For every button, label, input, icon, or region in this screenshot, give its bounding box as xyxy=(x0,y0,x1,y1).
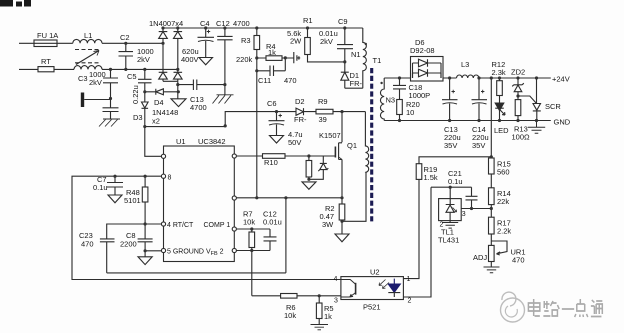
svg-text:10k: 10k xyxy=(243,218,255,227)
winding N2 xyxy=(365,112,368,173)
svg-text:1000P: 1000P xyxy=(409,91,431,100)
svg-text:GND: GND xyxy=(554,118,571,127)
wire AC line top xyxy=(19,42,163,44)
capacitor C7 0.1u xyxy=(107,176,123,195)
svg-text:LED: LED xyxy=(494,126,509,135)
SECTION: feedback xyxy=(341,78,507,300)
svg-text:220k: 220k xyxy=(236,55,253,64)
svg-text:4700: 4700 xyxy=(190,103,207,112)
watermark text dian4 xyxy=(575,299,588,317)
node N3 dot xyxy=(380,82,382,84)
SECTION: mosfet xyxy=(263,108,367,242)
resistor R48 5101 xyxy=(142,187,148,202)
wire gate line xyxy=(285,155,335,157)
wire N2 bottom return xyxy=(342,173,366,222)
pin 2 vfb circle xyxy=(232,248,236,252)
watermark text yi xyxy=(562,308,574,310)
capacitor C21 0.1u xyxy=(466,187,478,208)
svg-text:R10: R10 xyxy=(264,158,278,167)
resistor R11 gate pulldown xyxy=(306,161,312,178)
resistor R5 1k xyxy=(316,303,322,319)
fuse FU 1A xyxy=(34,40,57,47)
wire opto pin2 riser xyxy=(403,187,431,297)
svg-text:560: 560 xyxy=(497,168,510,177)
svg-text:35V: 35V xyxy=(472,141,485,150)
wire D1 to N1 bottom xyxy=(345,87,363,89)
svg-text:D92-08: D92-08 xyxy=(410,46,435,55)
resistor R6 10k xyxy=(281,294,297,299)
svg-text:SCR: SCR xyxy=(545,102,561,111)
resistor R10 xyxy=(263,154,286,159)
svg-text:ADJ: ADJ xyxy=(473,253,487,262)
svg-text:50V: 50V xyxy=(288,138,301,147)
svg-text:L3: L3 xyxy=(461,60,469,69)
node dots primary xyxy=(124,42,127,45)
node dots snubber xyxy=(176,83,179,86)
svg-text:2: 2 xyxy=(440,222,444,229)
node dots ic left xyxy=(113,175,116,178)
SECTION: watermark xyxy=(501,292,603,322)
SECTION: junction dots xyxy=(109,26,538,297)
resistor R3 220k xyxy=(254,36,260,50)
SECTION: secondary xyxy=(384,57,551,134)
svg-text:D2: D2 xyxy=(295,97,305,106)
capacitor C12b 0.01u xyxy=(264,229,277,251)
SECTION: bridge and bulk xyxy=(159,28,366,127)
node N1 dot xyxy=(365,43,367,45)
wire D3 node down to IC pin xyxy=(145,127,162,157)
resistor R2 0.47 3W xyxy=(339,204,345,220)
capacitor C18 1000P xyxy=(393,78,406,100)
node dots gate and sense xyxy=(307,154,310,157)
wire pin3 sense line xyxy=(236,197,342,199)
LED indicator xyxy=(495,103,504,111)
pin 5 circle xyxy=(161,248,165,252)
ground triangle R11 xyxy=(302,182,316,189)
svg-text:UC3842: UC3842 xyxy=(198,137,226,146)
svg-text:1k: 1k xyxy=(268,48,276,57)
capacitor C0 lower xyxy=(103,99,119,119)
svg-text:RT: RT xyxy=(41,57,51,66)
svg-text:100Ω: 100Ω xyxy=(512,133,531,142)
transistor opto phototransistor xyxy=(341,280,356,285)
wire L1 arrow xyxy=(76,51,99,65)
svg-text:C12: C12 xyxy=(216,19,230,28)
potentiometer UR1 470 xyxy=(489,245,495,261)
ground 777 under C12 riser xyxy=(213,95,234,104)
svg-text:2.3k: 2.3k xyxy=(492,68,506,77)
thyristor SCR xyxy=(533,78,541,121)
svg-text:C4: C4 xyxy=(200,19,210,28)
op-amp U1 UC3842 box xyxy=(164,146,235,262)
capacitor C3 xyxy=(103,69,118,98)
capacitor C13 220u xyxy=(442,78,458,121)
svg-text:10: 10 xyxy=(406,108,414,117)
diode D2 FR- xyxy=(296,108,304,115)
capacitor C13 4700 horizontal xyxy=(178,80,225,91)
wire R19 top jog xyxy=(419,157,491,164)
diode D4 xyxy=(145,91,179,93)
op-amp TL1 TL431 box xyxy=(439,199,462,221)
wire AC line bottom xyxy=(19,68,178,70)
zener ZD1 gate xyxy=(309,156,328,179)
svg-text:470: 470 xyxy=(284,76,297,85)
svg-text:4700: 4700 xyxy=(233,19,250,28)
wire secondary gnd rail xyxy=(384,120,551,122)
svg-text:5 GROUND: 5 GROUND xyxy=(167,249,204,256)
logo circle xyxy=(501,298,525,322)
svg-text:C9: C9 xyxy=(338,17,348,26)
diode opto LED xyxy=(388,279,400,293)
svg-text:2200: 2200 xyxy=(120,240,137,249)
ground triangle R2 xyxy=(335,234,349,242)
wire vfb to R6 xyxy=(252,295,281,297)
wire pin2 vfb net xyxy=(236,251,270,296)
resistor R12 2.3k xyxy=(497,81,503,96)
capacitor C11 470 xyxy=(257,58,286,76)
capacitor C12 4700 xyxy=(217,28,232,95)
capacitor C-R4 series xyxy=(294,52,300,63)
svg-text:C11: C11 xyxy=(258,76,271,85)
svg-text:K1507: K1507 xyxy=(319,131,341,140)
svg-text:35V: 35V xyxy=(444,141,457,150)
svg-text:R1: R1 xyxy=(303,16,313,25)
SECTION: transformer xyxy=(363,28,384,222)
wire VREF pin8 net xyxy=(72,176,341,279)
ground earth SCR xyxy=(528,121,545,134)
svg-text:U1: U1 xyxy=(176,137,186,146)
svg-text:U2: U2 xyxy=(370,268,380,277)
svg-text:3W: 3W xyxy=(322,220,334,229)
svg-text:2kV: 2kV xyxy=(89,78,102,87)
svg-text:P521: P521 xyxy=(363,303,381,312)
wire opto pin1 riser xyxy=(403,179,419,278)
title fragment top-left xyxy=(0,0,13,7)
svg-text:4 RT/CT: 4 RT/CT xyxy=(167,222,194,229)
svg-text:1k: 1k xyxy=(324,312,332,321)
svg-text:N3: N3 xyxy=(386,96,396,105)
node dots top rail xyxy=(161,26,164,29)
resistor R1 5.6k 2W xyxy=(305,38,311,55)
capacitor C4 620u xyxy=(198,28,215,58)
diode D1 FR- xyxy=(341,72,349,88)
diode bridge D-topleft xyxy=(159,28,168,72)
svg-text:L1: L1 xyxy=(84,31,92,40)
wire SCR gate xyxy=(518,96,536,103)
resistor R15 560 xyxy=(489,158,495,174)
svg-text:T1: T1 xyxy=(373,56,382,65)
wire TL431 ref xyxy=(461,208,491,210)
svg-text:N1: N1 xyxy=(351,50,361,59)
ground earth UR1 xyxy=(484,267,500,273)
resistor RT xyxy=(38,67,54,72)
svg-text:2: 2 xyxy=(408,298,412,305)
node dots secondary xyxy=(398,76,401,79)
ground triangle bridge xyxy=(171,99,186,107)
ground earth TL431 xyxy=(442,223,458,229)
SECTION: uc3842 xyxy=(72,146,342,330)
watermark text dian xyxy=(528,299,602,317)
pin 4 circle xyxy=(161,222,165,226)
inductor L1 common-mode choke xyxy=(73,39,102,43)
pin 3 sense circle xyxy=(232,196,236,200)
resistor R9 39 xyxy=(316,109,333,114)
svg-text:0.1u: 0.1u xyxy=(448,177,463,186)
capacitor C23 470 xyxy=(100,239,115,273)
winding N1 xyxy=(363,28,367,88)
capacitor C9 0.01u 2kV xyxy=(337,28,353,72)
wire L1 core dashes xyxy=(75,49,100,51)
svg-text:FR-: FR- xyxy=(294,115,307,124)
wire pin1 comp net xyxy=(236,228,270,230)
wire opto light arrows xyxy=(379,280,389,289)
zener ZD2 xyxy=(512,78,524,100)
svg-text:0.01u: 0.01u xyxy=(263,218,282,227)
capacitor C6 4.7u 50V xyxy=(269,112,285,136)
svg-text:C5: C5 xyxy=(127,72,137,81)
ground 777 under C0 xyxy=(99,119,120,127)
svg-text:Q1: Q1 xyxy=(347,141,357,150)
svg-text:0.1u: 0.1u xyxy=(93,183,108,192)
node dots vcc line xyxy=(275,110,278,113)
wire TL431 cathode line xyxy=(431,186,472,188)
SECTION: snubber top xyxy=(254,28,363,198)
svg-text:x2: x2 xyxy=(152,117,160,126)
resistor R14 22k xyxy=(489,188,495,205)
svg-text:3: 3 xyxy=(334,298,338,305)
wire C23 bottom to sense riser xyxy=(107,198,286,273)
diode D6 dual box xyxy=(411,57,444,82)
svg-text:2kV: 2kV xyxy=(137,55,150,64)
svg-text:1.5k: 1.5k xyxy=(424,173,438,182)
wire pin4 net xyxy=(107,224,162,239)
watermark text tong xyxy=(591,300,602,317)
svg-text:39: 39 xyxy=(319,115,327,124)
svg-text:FU 1A: FU 1A xyxy=(37,31,58,40)
svg-text:5101: 5101 xyxy=(124,196,141,205)
diode D3 xyxy=(142,92,149,127)
wire R6 to opto xyxy=(297,295,341,297)
ground triangle C4 xyxy=(199,58,213,65)
resistor R19 1.5k xyxy=(416,164,422,180)
resistor R4 1k xyxy=(257,57,294,59)
diode bridge D-botright xyxy=(174,72,183,81)
wire pin6 to R10 xyxy=(236,155,262,157)
wire C8 to pin5 xyxy=(145,250,161,252)
ground triangle C6 xyxy=(270,136,284,144)
pin 1 comp circle xyxy=(232,227,236,231)
ground triangle C7 xyxy=(108,195,122,203)
capacitor C14 220u xyxy=(472,78,488,121)
svg-text:R9: R9 xyxy=(318,97,328,106)
svg-text:C2: C2 xyxy=(120,33,130,42)
svg-text:470: 470 xyxy=(81,240,94,249)
svg-text:TL431: TL431 xyxy=(438,236,459,245)
inductor L3 xyxy=(457,75,479,78)
watermark text lu xyxy=(543,301,559,316)
ground triangle C8 xyxy=(138,257,152,265)
svg-text:D3: D3 xyxy=(133,113,143,122)
svg-text:10k: 10k xyxy=(284,311,296,320)
svg-text:R3: R3 xyxy=(241,36,251,45)
winding N3 xyxy=(380,78,384,121)
chassis ground bar xyxy=(81,93,84,108)
svg-text:D4: D4 xyxy=(154,98,164,107)
svg-text:2.2k: 2.2k xyxy=(497,227,511,236)
svg-text:400V: 400V xyxy=(181,55,199,64)
svg-text:C3: C3 xyxy=(78,74,88,83)
diode bridge D-botleft xyxy=(159,72,168,81)
svg-text:1: 1 xyxy=(407,276,411,283)
svg-text:COMP 1: COMP 1 xyxy=(204,222,231,229)
transformer T1 core xyxy=(370,68,373,222)
resistor R13 100 xyxy=(515,100,521,116)
svg-text:C6: C6 xyxy=(267,99,277,108)
wire VCC riser and line xyxy=(225,112,365,127)
resistor R7 10k xyxy=(249,232,255,248)
svg-text:8: 8 xyxy=(168,175,172,182)
resistor R20 10 xyxy=(397,100,403,115)
svg-text:3: 3 xyxy=(462,211,466,218)
svg-text:470: 470 xyxy=(512,256,525,265)
svg-text:+24V: +24V xyxy=(552,75,570,84)
capacitor C8 2200 xyxy=(138,224,153,257)
svg-text:4: 4 xyxy=(334,276,338,283)
svg-text:1N4007x4: 1N4007x4 xyxy=(149,19,183,28)
pin 7 left circle xyxy=(161,154,165,158)
optocoupler U2 P521 box xyxy=(341,277,404,300)
svg-text:ZD2: ZD2 xyxy=(511,68,525,77)
pin 6 out circle xyxy=(232,154,236,158)
svg-text:0.22u: 0.22u xyxy=(131,85,140,104)
transistor Q1 K1507 xyxy=(339,112,342,198)
wire B+ top rail xyxy=(163,27,363,29)
wire D3 node to VCC riser xyxy=(145,126,225,128)
svg-text:FR-: FR- xyxy=(350,79,363,88)
wire bridge bottom xyxy=(163,81,178,99)
resistor R17 2.2k xyxy=(489,217,495,234)
diode bridge D-topright xyxy=(174,28,183,72)
node dots feedback xyxy=(516,94,519,97)
wire secondary top rail xyxy=(384,77,551,79)
svg-text:2W: 2W xyxy=(290,37,302,46)
capacitor C5 0.22u xyxy=(138,69,152,92)
SECTION: primary input xyxy=(19,39,225,156)
svg-text:22k: 22k xyxy=(497,197,509,206)
capacitor C2 xyxy=(119,43,134,69)
svg-text:2kV: 2kV xyxy=(320,37,333,46)
ground small R5 xyxy=(311,325,329,330)
pin 8 circle xyxy=(161,174,165,178)
